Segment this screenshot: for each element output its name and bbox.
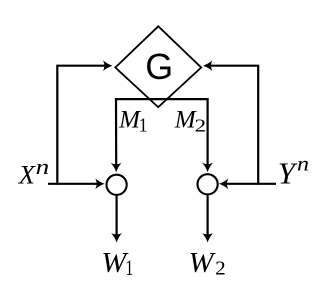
svg-text:n: n <box>297 152 309 176</box>
wire: Y^n input line to right adder <box>225 183 276 185</box>
arrowhead into left circle from M1 <box>111 163 122 172</box>
arrowhead into right circle from M2 <box>202 163 213 172</box>
svg-text:n: n <box>36 154 50 179</box>
svg-text:W: W <box>189 248 216 279</box>
wire: M2 vertical drop <box>207 98 209 166</box>
svg-text:Y: Y <box>278 156 298 191</box>
wire: left feedback branch from X line up to G input <box>57 66 106 185</box>
wire: X^n input line to left adder <box>48 183 99 185</box>
svg-text:2: 2 <box>195 116 207 136</box>
arrowhead W1 <box>111 233 122 242</box>
arrowhead into right circle from Y <box>219 178 228 189</box>
node circle right (adder for W2) <box>198 174 218 194</box>
svg-text:X: X <box>18 159 37 189</box>
arrowhead into left vertex of G <box>103 60 112 71</box>
wire: W1 output arrow <box>115 196 117 236</box>
arrowhead into right vertex of G <box>203 60 212 71</box>
svg-text:M: M <box>174 106 197 133</box>
diamond G block <box>115 26 201 107</box>
svg-text:G: G <box>145 47 173 87</box>
svg-text:1: 1 <box>125 255 133 280</box>
wire: M1 vertical drop <box>115 98 117 166</box>
wire: W2 output arrow <box>207 195 209 236</box>
node circle left (adder for W1) <box>107 175 127 195</box>
wire: right feedback branch from Y line up to G input <box>209 66 258 185</box>
svg-text:2: 2 <box>215 258 226 280</box>
svg-text:1: 1 <box>139 116 148 137</box>
wire: horizontal bus under G connecting M1 and M2 drops <box>116 98 208 100</box>
arrowhead into left circle from X <box>95 178 104 189</box>
arrowhead W2 <box>202 233 213 242</box>
